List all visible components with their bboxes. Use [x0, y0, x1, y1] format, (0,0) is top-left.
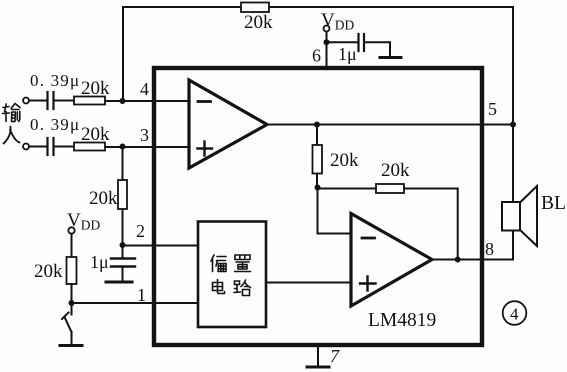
wire R3 to pin2 node	[122, 209, 124, 245]
text 电 (circuit char 1)	[213, 280, 225, 294]
svg-text:20k: 20k	[81, 124, 110, 145]
node A2 output	[455, 257, 461, 263]
resistor R5 20k (vertical, internal)	[316, 125, 318, 146]
capacitor C1 0.39u	[46, 92, 48, 109]
text 路 (circuit char 2)	[234, 280, 251, 296]
svg-text:1μ: 1μ	[90, 252, 109, 272]
svg-text:20k: 20k	[381, 160, 410, 181]
text 偏 (bias char 1)	[211, 255, 226, 272]
svg-text:6: 6	[312, 46, 321, 66]
wire C2 to R2	[55, 146, 75, 148]
node A1 output / R5	[314, 122, 320, 128]
resistor R3 20k (vertical)	[118, 180, 127, 209]
capacitor C4 1u	[357, 34, 359, 51]
speaker BL	[512, 125, 514, 203]
resistor R2 20k	[74, 143, 105, 151]
wire input2 to C2	[29, 146, 47, 148]
input terminal IN1	[23, 98, 29, 104]
terminal VDD (left)	[68, 227, 74, 233]
svg-text:0. 39μ: 0. 39μ	[30, 115, 80, 134]
wire A2 output to pin8	[432, 259, 513, 261]
resistor R6 20k (horizontal, internal)	[376, 184, 404, 193]
wire node to A2 inverting input	[318, 188, 352, 234]
wire R4 to pin1 node	[71, 284, 73, 303]
wire top rail right	[269, 7, 513, 125]
wire R1 to pin4 / op-amp A1 inverting input	[105, 100, 189, 102]
svg-text:4: 4	[510, 305, 519, 324]
wire pin3 node down to R3	[122, 147, 124, 181]
text 置 (bias char 2)	[235, 255, 251, 272]
capacitor C3 1u (pin2 bypass)	[122, 246, 124, 259]
wire pin1 into bias box	[72, 302, 199, 304]
wire VDD to pin6	[326, 32, 328, 69]
wire pin6 node to C4	[327, 41, 358, 43]
svg-text:LM4819: LM4819	[368, 310, 436, 331]
switch S1	[71, 303, 73, 315]
wire input1 to C1	[29, 100, 47, 102]
svg-text:20k: 20k	[34, 261, 63, 282]
svg-text:1: 1	[137, 285, 146, 305]
svg-text:BL: BL	[541, 193, 566, 214]
terminal VDD (top)	[324, 26, 330, 32]
svg-text:20k: 20k	[89, 188, 118, 209]
input terminal IN2	[23, 144, 29, 150]
svg-text:20k: 20k	[330, 150, 359, 171]
wire VDD to R4	[71, 234, 73, 257]
node pin4 junction	[120, 98, 126, 104]
resistor R4 20k (vertical)	[67, 257, 77, 284]
resistor R1 20k	[74, 97, 105, 105]
svg-text:2: 2	[136, 221, 145, 241]
wire R6 to A2 output (feedback)	[404, 189, 458, 260]
wire pin2 into bias box	[123, 245, 199, 247]
resistor Rf1 20k (top feedback)	[241, 3, 269, 13]
wire bias output to A2 non-inverting input	[266, 282, 351, 284]
text 入 (input char 2)	[4, 127, 20, 144]
ground (C3)	[106, 281, 132, 284]
node pin5 / speaker top	[510, 122, 516, 128]
wire node to R6	[318, 188, 377, 190]
wire A1 output to pin5	[267, 124, 513, 126]
node pin6 junction	[324, 39, 330, 45]
svg-text:3: 3	[140, 125, 149, 145]
svg-text:4: 4	[140, 79, 149, 99]
op-amp A1	[189, 80, 267, 168]
svg-text:20k: 20k	[244, 12, 273, 33]
op-amp A2	[351, 214, 432, 307]
node pin3 junction	[120, 144, 126, 150]
node pin1 junction	[69, 300, 75, 306]
svg-text:1μ: 1μ	[338, 44, 357, 64]
svg-text:8: 8	[485, 239, 494, 259]
text 输 (input char 1)	[3, 104, 21, 122]
svg-text:5: 5	[488, 99, 497, 119]
label circled 4	[503, 301, 527, 325]
capacitor C2 0.39u	[46, 138, 48, 155]
svg-text:7: 7	[330, 346, 340, 366]
wire R2 to pin3 / op-amp A1 non-inverting input	[105, 146, 189, 148]
bias circuit box	[198, 222, 266, 328]
wire top feedback rail	[123, 7, 241, 101]
ground (S1)	[60, 344, 82, 347]
wire C4 to ground	[365, 42, 390, 55]
IC U1 LM4819 outline	[154, 68, 482, 345]
node pin2 junction	[120, 242, 126, 248]
ground (C4)	[380, 56, 401, 59]
ground pin7	[317, 347, 319, 366]
node R5/R6 junction	[315, 185, 321, 191]
wire C1 to R1	[55, 100, 75, 102]
svg-text:20k: 20k	[81, 78, 110, 99]
svg-text:0. 39μ: 0. 39μ	[30, 71, 80, 90]
